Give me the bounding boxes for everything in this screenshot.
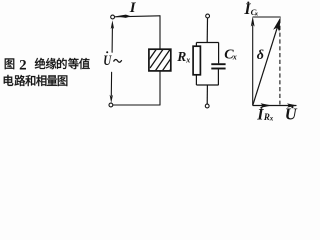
wire: above capacitor xyxy=(218,43,220,64)
wire: top wire of source loop xyxy=(115,15,161,18)
caption char 和(line2) xyxy=(25,75,35,86)
parallelogram top edge xyxy=(253,16,281,18)
svg-text:2: 2 xyxy=(19,57,27,73)
caption char 的 xyxy=(57,58,67,69)
caption char 量(line2) xyxy=(47,75,57,86)
svg-text:x: x xyxy=(232,53,237,62)
caption char 相(line2) xyxy=(36,75,46,86)
arrowhead down toward bottom-left terminal xyxy=(110,95,113,103)
svg-text:I: I xyxy=(129,0,137,16)
svg-text:R: R xyxy=(176,49,186,64)
wire: top wire of RC loop xyxy=(196,42,218,44)
dot above U xyxy=(106,51,108,53)
wire: below capacitor xyxy=(217,69,219,85)
wire: right branch upper (to hatched box) xyxy=(159,16,161,49)
svg-text:x: x xyxy=(254,10,259,17)
caption char 绝 xyxy=(35,58,46,69)
svg-text:x: x xyxy=(185,56,190,65)
figure caption 图2 绝缘的等值 / 电路和相量图 xyxy=(4,57,90,86)
caption char 值 xyxy=(79,58,90,69)
wire: left branch upper segment xyxy=(111,28,113,53)
wire: right branch lower xyxy=(159,71,161,105)
current arrow I on top wire xyxy=(116,15,131,18)
caption char 缘 xyxy=(46,58,57,69)
vector ICx arrowhead xyxy=(251,16,255,26)
wire: bottom terminal lead xyxy=(206,85,208,104)
wire: below resistor xyxy=(195,75,197,85)
wire: bottom wire of RC loop xyxy=(196,84,218,86)
terminal: bottom-left circle xyxy=(109,103,113,107)
svg-text:δ: δ xyxy=(257,48,264,63)
terminal: RC bottom circle xyxy=(205,104,209,108)
caption char 图(line1) xyxy=(5,58,15,69)
vector ICx shaft xyxy=(252,25,254,106)
wire: left branch lower segment xyxy=(110,72,112,96)
equivalent RC circuit xyxy=(196,18,218,104)
terminal: top-left circle xyxy=(111,15,115,19)
arrowhead U axis xyxy=(287,103,297,107)
terminal: RC top circle xyxy=(206,14,210,18)
arrowhead IRx on axis xyxy=(261,103,272,107)
caption char 图(line2) xyxy=(58,75,68,86)
U axis line xyxy=(253,105,297,107)
caption char 等 xyxy=(68,58,79,69)
wire: bottom wire of source loop xyxy=(113,104,160,106)
hatched box (insulation specimen) xyxy=(146,44,178,78)
svg-text:U: U xyxy=(103,51,112,68)
arrowhead up toward top-left terminal xyxy=(111,20,114,29)
caption char 路(line2) xyxy=(14,75,25,86)
caption char 电(line2) xyxy=(4,75,14,86)
capacitor Cx plates xyxy=(211,63,225,65)
svg-text:x: x xyxy=(269,114,274,122)
svg-text:U: U xyxy=(285,104,298,123)
resistor Rx body xyxy=(193,46,200,75)
wire: top terminal lead xyxy=(206,18,208,43)
dashed drop line xyxy=(279,19,281,105)
wire: above resistor xyxy=(195,43,197,47)
tilde of U~ xyxy=(114,60,122,63)
vector I line xyxy=(253,21,280,105)
vector I arrowhead xyxy=(273,17,281,32)
